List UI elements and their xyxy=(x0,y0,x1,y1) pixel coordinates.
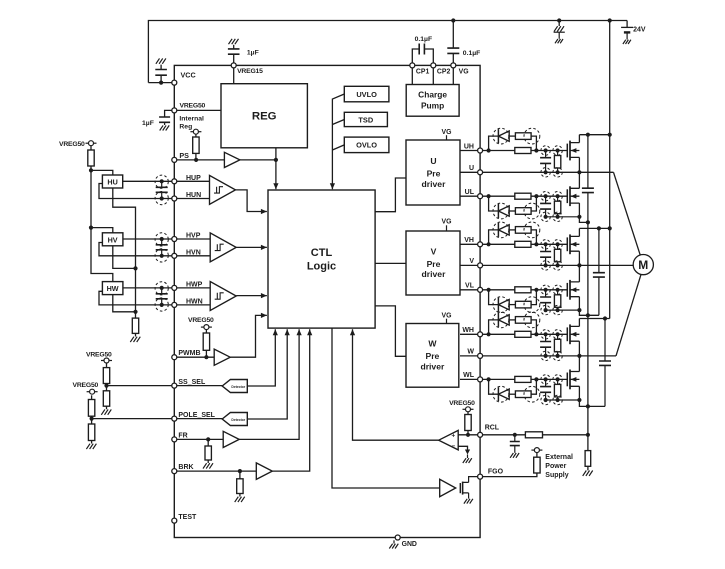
svg-text:REG: REG xyxy=(252,111,277,123)
label 1uF VREG50 xyxy=(142,120,154,127)
transistor FGO open-drain xyxy=(460,477,477,499)
pin PWMB xyxy=(172,350,201,360)
capacitor gate-source xyxy=(540,146,551,177)
capacitor gate-source xyxy=(540,240,551,270)
capacitor 1uF VREG15 xyxy=(228,45,240,63)
dashed option gate branch xyxy=(493,386,540,402)
transistor U high-side NMOS xyxy=(567,141,579,161)
label External Power Supply xyxy=(545,454,573,479)
capacitor HV input filter xyxy=(155,233,168,262)
block REG xyxy=(221,84,307,148)
svg-text:Charge: Charge xyxy=(418,90,447,100)
wire VREG15 to REG xyxy=(233,68,235,84)
label Internal Reg xyxy=(179,115,204,130)
node W phase xyxy=(483,355,616,357)
svg-text:V: V xyxy=(469,258,474,265)
pin UH xyxy=(464,143,483,153)
pin WL xyxy=(463,372,482,382)
wire VREG50 to cap xyxy=(165,110,172,117)
wire SS_SEL line xyxy=(107,385,172,387)
wire CTL to V predriver xyxy=(375,262,406,264)
wire U predriver outputs xyxy=(460,151,478,197)
svg-text:WH: WH xyxy=(462,327,474,334)
svg-text:Pump: Pump xyxy=(421,101,444,111)
buffer PS xyxy=(224,152,240,167)
comparator RCL xyxy=(439,430,459,450)
pin FR xyxy=(172,432,188,442)
capacitor gate-source xyxy=(540,330,551,361)
buffer BRK xyxy=(256,463,272,480)
capacitor HU input filter xyxy=(155,175,168,205)
wire gate line from pin xyxy=(483,148,515,152)
label VG V predriver xyxy=(442,219,452,231)
resistor hall common xyxy=(132,318,138,336)
svg-text:VREG50: VREG50 xyxy=(73,382,99,389)
capacitor 0.1uF VG xyxy=(447,21,459,63)
block TSD xyxy=(344,112,387,126)
wire PS buffer to CTL node xyxy=(240,159,276,161)
motor M xyxy=(633,255,653,275)
junction RCL filter cap xyxy=(513,433,517,437)
svg-text:VL: VL xyxy=(465,283,475,290)
wire HVP output xyxy=(123,238,172,240)
wire V low drain xyxy=(578,265,580,282)
svg-text:Pre: Pre xyxy=(425,351,439,361)
node U phase xyxy=(483,171,614,173)
resistor FR pull-down xyxy=(205,439,211,463)
svg-text:VREG50: VREG50 xyxy=(86,352,112,359)
pin U xyxy=(469,165,483,175)
wire HUP to comparator xyxy=(177,180,210,182)
wire U low drain xyxy=(578,172,580,188)
wire CTL to U predriver xyxy=(375,178,406,212)
svg-text:GND: GND xyxy=(402,541,417,548)
wire HWN output xyxy=(99,291,172,305)
wire hall supply rail xyxy=(91,166,113,282)
pin VREG15 xyxy=(231,63,263,75)
hall sensor HW xyxy=(102,282,123,295)
svg-text:VREG15: VREG15 xyxy=(237,68,263,75)
junction PS pull-up xyxy=(194,158,198,162)
wire W high drain xyxy=(578,319,580,327)
wire gate line from pin xyxy=(483,194,515,198)
capacitor gate-source xyxy=(540,375,551,405)
svg-text:U: U xyxy=(469,165,474,172)
wire 24V top rail xyxy=(148,21,627,83)
wire V high drain xyxy=(578,228,580,236)
wire HV supply xyxy=(91,228,113,233)
pin HVP xyxy=(172,233,201,242)
comparator HV schmitt xyxy=(210,233,236,262)
wire REG output to CTL xyxy=(273,148,278,189)
resistor SS_SEL pull-down xyxy=(103,386,109,410)
wire W 24V drain rail xyxy=(579,316,609,320)
svg-text:VH: VH xyxy=(464,237,474,244)
junction REG-PS line xyxy=(274,158,278,162)
wire V low source rail xyxy=(546,297,599,318)
ground FGO source xyxy=(464,499,473,504)
wire comparator reference xyxy=(458,446,470,458)
junction HU supply xyxy=(89,168,93,172)
ground BRK pull-down xyxy=(235,497,245,502)
svg-text:−: − xyxy=(451,443,455,450)
wire HVP to comparator xyxy=(177,238,210,240)
ground FR pull-down xyxy=(203,463,213,468)
svg-text:VG: VG xyxy=(459,69,469,76)
resistor RCL series xyxy=(525,432,542,438)
hall sensor HU xyxy=(102,175,122,188)
wire gate line from pin xyxy=(483,242,515,246)
transistor V high-side NMOS xyxy=(567,234,579,254)
svg-text:driver: driver xyxy=(420,362,445,372)
terminal Internal Reg supply xyxy=(190,129,201,134)
svg-text:0.1µF: 0.1µF xyxy=(415,36,433,43)
diode gate speed-up xyxy=(489,379,516,401)
ground SS_SEL divider xyxy=(101,409,111,414)
transistor V low-side NMOS xyxy=(567,280,579,300)
wire FGO external xyxy=(483,473,537,477)
resistor POLE_SEL pull-down xyxy=(88,419,94,444)
pin VG xyxy=(451,63,469,76)
pin VL xyxy=(465,283,483,293)
svg-text:1µF: 1µF xyxy=(247,50,259,57)
resistor gate series xyxy=(515,376,568,382)
dashed option gate branch xyxy=(493,203,540,219)
svg-text:Detector: Detector xyxy=(231,385,245,389)
svg-text:CP1: CP1 xyxy=(416,69,430,76)
wire PS to buffer xyxy=(177,159,224,161)
resistor gate series xyxy=(515,331,568,337)
detector POLE_SEL xyxy=(222,413,247,426)
diode gate speed-up xyxy=(489,129,516,150)
ground 24V battery xyxy=(623,40,631,44)
capacitor gate-source xyxy=(540,285,551,315)
pin HUP xyxy=(172,175,201,184)
svg-text:WL: WL xyxy=(463,372,475,379)
svg-text:VREG50: VREG50 xyxy=(59,141,85,148)
wire CTL to W predriver xyxy=(375,306,406,356)
resistor gate series xyxy=(515,193,568,199)
wire POLE_SEL line xyxy=(92,418,172,420)
wire HVN output xyxy=(99,243,172,256)
terminal VREG50 POLE_SEL xyxy=(87,389,98,394)
svg-text:VCC: VCC xyxy=(181,70,196,79)
svg-text:U: U xyxy=(430,156,436,166)
diode gate speed-up xyxy=(489,313,516,334)
resistor PS pull-up xyxy=(193,134,199,160)
buffer FGO xyxy=(440,479,456,496)
battery 24V supply xyxy=(621,21,633,40)
wire HWP to comparator xyxy=(177,287,210,289)
terminal External Power Supply xyxy=(531,448,542,453)
resistor FGO pull-up xyxy=(534,453,540,473)
transistor U low-side NMOS xyxy=(567,186,579,206)
buffer PWMB xyxy=(214,349,230,365)
resistor gate-source xyxy=(553,375,562,405)
svg-text:Pre: Pre xyxy=(427,169,441,179)
capacitor VCC bypass xyxy=(155,65,167,83)
wire RCL comparator to CTL xyxy=(350,329,439,440)
pin GND xyxy=(395,535,417,548)
terminal VREG50 PWMB xyxy=(201,325,212,330)
block Charge Pump xyxy=(406,85,459,117)
junction FR pull-down xyxy=(206,437,210,441)
comparator HW schmitt xyxy=(210,282,236,311)
junction HW ground xyxy=(133,310,137,314)
pin VCC xyxy=(172,70,196,85)
label VREG50 SS_SEL xyxy=(86,352,112,359)
ground GND pin xyxy=(389,540,398,548)
label 0.1uF VG xyxy=(463,50,481,57)
comparator HU schmitt xyxy=(210,175,236,204)
capacitor 1uF VREG50 xyxy=(159,117,170,125)
wire HV ground xyxy=(113,246,136,269)
pin SS_SEL xyxy=(172,379,206,388)
pin FGO xyxy=(478,469,504,479)
resistor gate branch xyxy=(515,379,536,397)
ground VCC cap xyxy=(156,58,166,63)
svg-text:VG: VG xyxy=(442,129,452,136)
dashed option gate branch xyxy=(493,297,540,313)
resistor gate-source xyxy=(553,192,562,222)
svg-text:UL: UL xyxy=(465,189,475,196)
resistor gate branch xyxy=(515,317,536,335)
wire gate line from pin xyxy=(483,288,515,292)
wire BRK to buffer xyxy=(177,470,256,472)
svg-text:FGO: FGO xyxy=(488,469,504,476)
pin CP2 xyxy=(431,63,451,76)
svg-text:External: External xyxy=(545,454,573,461)
svg-text:POLE_SEL: POLE_SEL xyxy=(178,412,215,419)
terminal VREG50 RCL xyxy=(463,407,474,412)
svg-text:Reg: Reg xyxy=(179,123,192,130)
wire U 24V drain rail xyxy=(579,133,611,137)
pin CP1 xyxy=(410,63,430,76)
wire BRK buffer to CTL xyxy=(272,329,312,471)
svg-text:driver: driver xyxy=(422,179,447,189)
svg-text:HV: HV xyxy=(108,235,118,244)
resistor PWMB pull-up xyxy=(203,330,209,358)
wire HUP output xyxy=(123,180,172,182)
svg-text:PWMB: PWMB xyxy=(178,350,200,357)
svg-text:Logic: Logic xyxy=(307,261,336,273)
transistor W low-side NMOS xyxy=(567,370,579,390)
svg-text:OVLO: OVLO xyxy=(356,141,377,150)
pin PS xyxy=(172,151,189,162)
wire FR buffer to CTL xyxy=(239,329,302,439)
block OVLO xyxy=(344,137,389,153)
svg-text:VREG50: VREG50 xyxy=(449,400,475,407)
resistor SS_SEL pull-up xyxy=(103,363,109,386)
pin VREG50 xyxy=(172,102,206,113)
junction HV supply xyxy=(89,226,93,230)
svg-text:VG: VG xyxy=(442,313,452,320)
svg-text:W: W xyxy=(467,349,474,356)
pin HWP xyxy=(172,282,203,291)
wire POLE_SEL to detector xyxy=(177,418,222,420)
resistor RCL shunt xyxy=(585,451,591,471)
wire HWN to comparator xyxy=(177,304,210,306)
junction PWMB pull-up xyxy=(204,355,208,359)
svg-text:VREG50: VREG50 xyxy=(188,317,214,324)
wire RCL pin to comparator xyxy=(458,433,477,437)
pin RCL xyxy=(478,425,500,438)
svg-text:TSD: TSD xyxy=(358,115,373,124)
svg-text:BRK: BRK xyxy=(178,464,193,471)
pin W xyxy=(467,349,482,359)
wire HUN to comparator xyxy=(177,198,210,200)
ground frame chassis xyxy=(554,21,565,44)
detector SS_SEL xyxy=(222,380,247,393)
svg-text:Power: Power xyxy=(545,463,566,470)
block V Pre driver xyxy=(406,231,460,295)
block CTL Logic xyxy=(268,190,375,328)
wire protection bus to CTL xyxy=(330,94,345,189)
svg-text:TEST: TEST xyxy=(178,514,197,521)
label VG W predriver xyxy=(442,313,452,324)
hall sensor HV xyxy=(102,233,123,246)
svg-text:Internal: Internal xyxy=(179,115,204,122)
svg-text:UVLO: UVLO xyxy=(356,90,377,99)
terminal VREG50 SS_SEL xyxy=(101,358,112,363)
svg-text:24V: 24V xyxy=(633,27,646,34)
capacitor V bulk xyxy=(593,228,605,315)
resistor gate branch xyxy=(515,133,536,151)
wire gate line from pin xyxy=(483,332,515,336)
pin VH xyxy=(464,237,482,247)
wire RCL external line xyxy=(483,434,526,436)
label 24V xyxy=(633,27,646,34)
wire HU comparator to CTL xyxy=(236,190,267,214)
label VREG50 POLE_SEL xyxy=(73,382,99,389)
svg-text:Detector: Detector xyxy=(231,418,245,422)
diode gate speed-up xyxy=(489,196,516,218)
capacitor HW input filter xyxy=(155,282,168,311)
capacitor RCL filter xyxy=(510,435,520,453)
wire CTL to FGO buffer xyxy=(332,328,440,488)
svg-text:1µF: 1µF xyxy=(142,120,154,127)
label 1uF VREG15 xyxy=(247,50,259,57)
resistor gate-source xyxy=(553,146,562,177)
wire W low source rail xyxy=(546,386,605,408)
svg-text:CTL: CTL xyxy=(311,247,333,259)
IC boundary xyxy=(174,65,480,537)
wire W high source xyxy=(577,341,581,358)
resistor gate-source xyxy=(553,240,562,270)
node V phase xyxy=(483,264,633,266)
pin HVN xyxy=(172,250,201,259)
resistor POLE_SEL pull-up xyxy=(88,395,94,418)
ground VREG15 cap xyxy=(229,39,239,44)
svg-text:CP2: CP2 xyxy=(437,69,451,76)
svg-text:0.1µF: 0.1µF xyxy=(463,50,481,57)
svg-text:VREG50: VREG50 xyxy=(180,102,206,109)
wire HVN to comparator xyxy=(177,255,210,257)
diode gate speed-up xyxy=(489,290,516,312)
block W Pre driver xyxy=(406,324,459,388)
pin HWN xyxy=(172,299,203,308)
dashed option gate branch xyxy=(493,222,540,238)
wire SS_SEL to detector xyxy=(177,385,222,387)
wire U high drain xyxy=(578,135,580,143)
wire VREG50 to REG xyxy=(177,109,221,111)
label VREG50 PWMB xyxy=(188,317,214,324)
resistor gate-source xyxy=(553,285,562,315)
wire VCC to top rail xyxy=(148,82,171,84)
ground RCL shunt xyxy=(583,471,593,476)
svg-text:SS_SEL: SS_SEL xyxy=(178,379,206,386)
wire U high source xyxy=(577,157,581,174)
resistor RCL pull-up xyxy=(465,412,471,435)
label VG U predriver xyxy=(442,129,452,140)
resistor gate branch xyxy=(515,290,536,308)
svg-text:VG: VG xyxy=(442,219,452,226)
junction VCC cap xyxy=(159,81,163,85)
junction frame ground tap xyxy=(557,18,561,22)
resistor gate series xyxy=(515,241,568,247)
svg-text:HW: HW xyxy=(107,284,119,293)
resistor hall supply rail xyxy=(88,146,94,166)
wire HW ground xyxy=(113,295,136,312)
ground hall resistor xyxy=(130,337,140,342)
junction POLE_SEL divider xyxy=(90,417,94,421)
dashed option gate branch xyxy=(493,128,540,144)
svg-text:driver: driver xyxy=(422,269,447,279)
wire HUN output xyxy=(99,184,172,199)
wire PWMB buffer to CTL xyxy=(230,313,267,357)
resistor gate series xyxy=(515,287,568,293)
block U Pre driver xyxy=(406,140,460,205)
pin BRK xyxy=(172,464,194,474)
junction HV ground xyxy=(133,266,137,270)
wire FR to buffer xyxy=(177,438,223,440)
wire HV comparator to CTL xyxy=(236,245,267,250)
wire W phase to motor xyxy=(616,274,641,356)
wire 24V vertical bus xyxy=(608,18,612,318)
ground RCL filter cap xyxy=(510,453,519,458)
resistor gate series xyxy=(515,148,568,154)
wire HU ground xyxy=(113,188,136,318)
pin V xyxy=(469,258,482,268)
pin POLE_SEL xyxy=(172,412,216,421)
ground comparator reference xyxy=(463,458,472,463)
wire HU supply xyxy=(91,170,113,175)
buffer FR xyxy=(223,431,239,447)
svg-text:RCL: RCL xyxy=(485,425,500,432)
pin WH xyxy=(462,327,482,337)
pin UL xyxy=(465,189,483,199)
svg-text:UH: UH xyxy=(464,143,474,150)
transistor W high-side NMOS xyxy=(567,324,579,344)
resistor gate-source xyxy=(553,330,562,361)
wire W low drain xyxy=(578,356,580,372)
wire W predriver outputs xyxy=(460,334,478,379)
wire PWMB to buffer xyxy=(177,356,214,358)
diode gate speed-up xyxy=(489,223,516,244)
svg-text:+: + xyxy=(451,433,455,440)
ground POLE_SEL divider xyxy=(86,444,96,449)
wire RCL to shunt xyxy=(543,435,588,451)
dashed option gate branch xyxy=(493,312,540,328)
svg-text:W: W xyxy=(428,339,437,349)
label VREG50 RCL xyxy=(449,400,475,407)
svg-text:PS: PS xyxy=(179,151,189,160)
capacitor W bulk xyxy=(599,319,611,407)
svg-text:FR: FR xyxy=(178,432,187,439)
pin TEST xyxy=(172,514,197,523)
capacitor gate-source xyxy=(540,192,551,222)
wire source return bus xyxy=(586,222,590,437)
